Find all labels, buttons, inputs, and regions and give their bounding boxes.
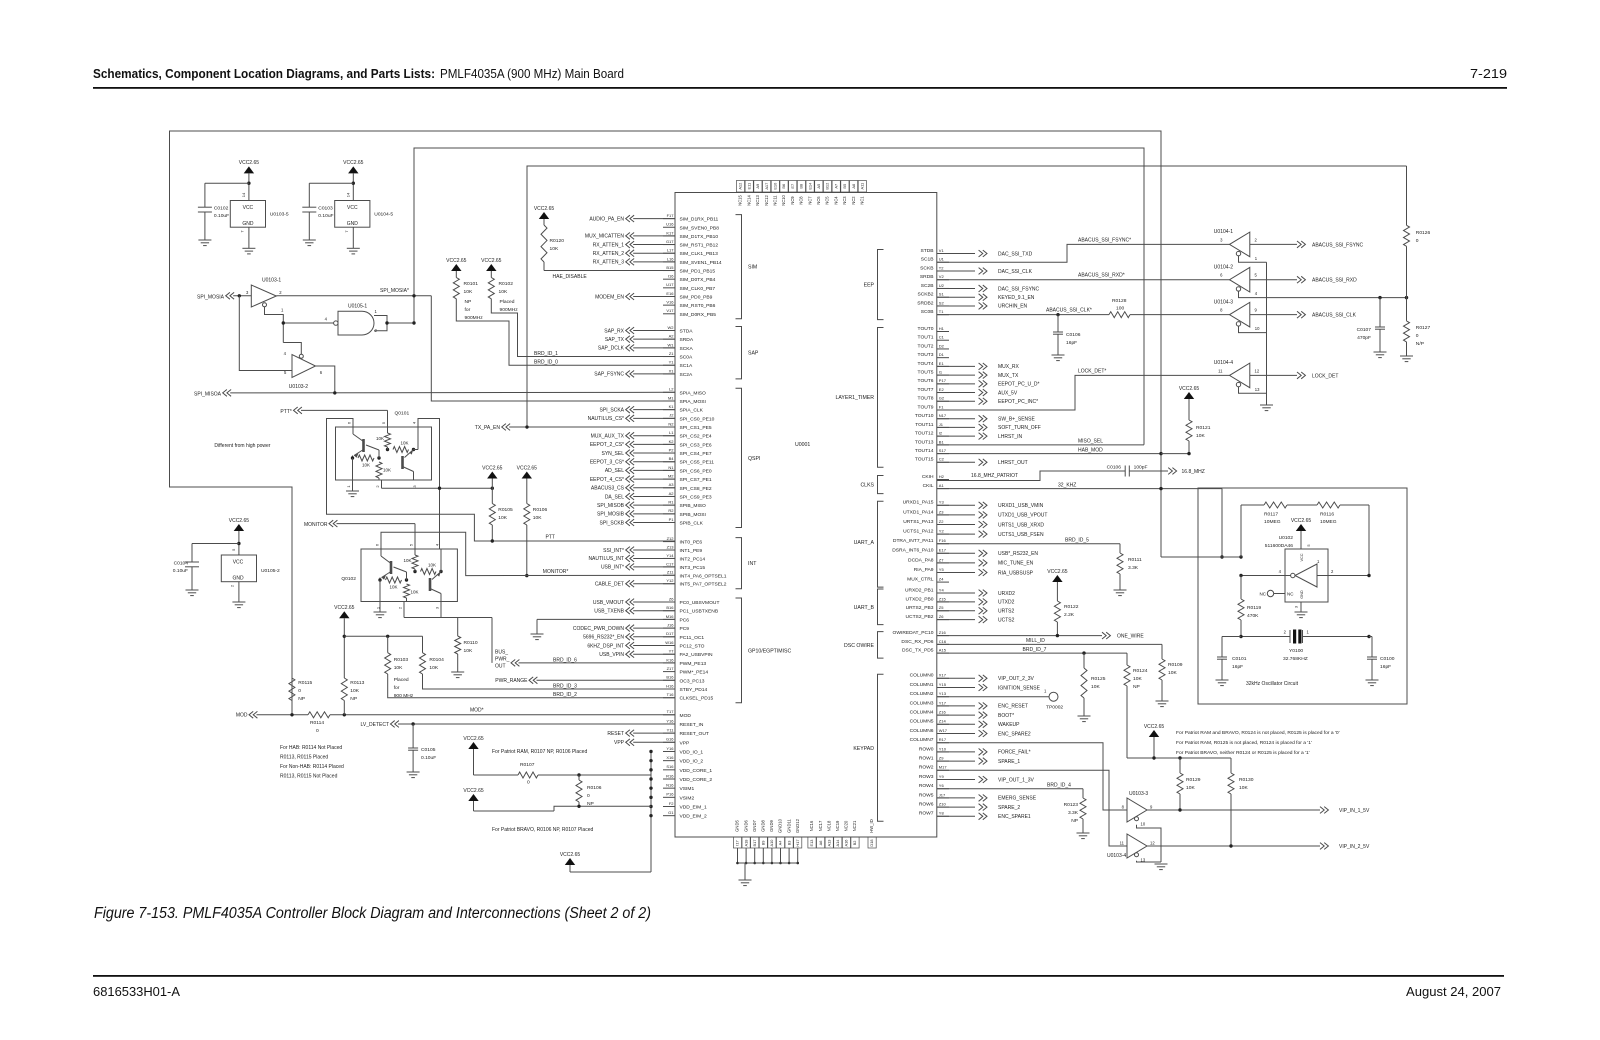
svg-text:R0110: R0110	[464, 640, 478, 646]
svg-text:10K: 10K	[533, 515, 542, 521]
svg-text:R0123: R0123	[1064, 802, 1079, 808]
svg-text:R0113: R0113	[350, 680, 364, 686]
capacitor C0100	[1369, 636, 1372, 638]
svg-text:U17: U17	[666, 282, 674, 287]
svg-text:STDB: STDB	[920, 248, 933, 254]
svg-text:DA_SEL: DA_SEL	[605, 494, 624, 500]
svg-text:Y16: Y16	[666, 718, 674, 723]
svg-text:COLUMN1: COLUMN1	[910, 682, 934, 688]
svg-text:16pF: 16pF	[1232, 664, 1243, 670]
ground at PC6	[531, 633, 544, 635]
svg-text:P16: P16	[666, 792, 674, 797]
capacitor C0107	[1379, 298, 1381, 327]
svg-text:VCC2.65: VCC2.65	[534, 206, 555, 212]
wire enable bus to C0107 R0127	[1267, 297, 1407, 299]
svg-text:10K: 10K	[362, 463, 370, 468]
svg-text:ROW3: ROW3	[919, 774, 934, 780]
svg-text:SAP_FSYNC: SAP_FSYNC	[594, 372, 624, 378]
resistor R0122	[1054, 601, 1060, 622]
svg-text:Z5: Z5	[939, 605, 944, 610]
svg-text:10K: 10K	[1196, 433, 1205, 439]
resistor R0125	[1083, 653, 1085, 668]
svg-text:SAP_RX: SAP_RX	[604, 328, 624, 334]
svg-text:SPI_SCKA: SPI_SCKA	[600, 407, 625, 413]
ground at U0103-4	[1155, 863, 1168, 865]
svg-text:N1: N1	[668, 465, 674, 470]
net SPI_MOSIA* wire	[276, 295, 431, 297]
resistor R0106 monitor	[524, 504, 530, 526]
wire MOD/HAB_MOD frame loop	[170, 131, 1162, 715]
svg-text:Y14: Y14	[666, 553, 674, 558]
svg-text:U0104-5: U0104-5	[374, 212, 393, 218]
svg-text:SC1B: SC1B	[921, 257, 934, 263]
svg-text:Z16: Z16	[939, 630, 947, 635]
svg-text:SC2B: SC2B	[921, 283, 934, 289]
svg-text:W1: W1	[668, 342, 675, 347]
svg-text:E2: E2	[939, 387, 945, 392]
svg-text:VIP_IN_1_5V: VIP_IN_1_5V	[1339, 808, 1370, 814]
svg-text:ROW2: ROW2	[919, 765, 934, 771]
svg-text:SIM_D1RX_PB11: SIM_D1RX_PB11	[680, 217, 719, 223]
resistor R0114	[308, 712, 330, 718]
svg-text:A7: A7	[833, 184, 838, 189]
svg-text:R0105: R0105	[498, 507, 513, 513]
ground at U0102	[1300, 602, 1302, 612]
svg-text:URTS2_PB3: URTS2_PB3	[906, 605, 934, 611]
svg-text:INT4_PA6_OPTSEL1: INT4_PA6_OPTSEL1	[680, 573, 727, 579]
svg-text:VCC: VCC	[233, 560, 244, 566]
svg-text:CODEC_PWR_DOWN: CODEC_PWR_DOWN	[573, 626, 625, 632]
svg-text:HW_ID: HW_ID	[869, 819, 874, 833]
svg-text:B9: B9	[761, 841, 766, 846]
svg-text:MUX_AUX_TX: MUX_AUX_TX	[591, 434, 625, 440]
svg-text:NC4: NC4	[833, 196, 838, 205]
net ABACUS_SSI_FSYNC output	[1250, 243, 1297, 245]
svg-text:D2: D2	[939, 343, 945, 348]
svg-text:For Patriot RAM and BRAVO, R01: For Patriot RAM and BRAVO, R0124 is not …	[1176, 730, 1340, 736]
svg-text:INT2_PC14: INT2_PC14	[680, 556, 706, 562]
svg-text:A12: A12	[738, 183, 743, 190]
svg-text:Z7: Z7	[939, 557, 944, 562]
svg-text:VCC2.65: VCC2.65	[463, 736, 484, 742]
svg-text:C0106: C0106	[1066, 332, 1081, 338]
svg-text:11: 11	[1218, 368, 1223, 373]
svg-text:C0100: C0100	[1380, 656, 1395, 662]
svg-text:GND: GND	[242, 221, 254, 227]
svg-text:NC8: NC8	[799, 196, 804, 205]
net ABACUS_SSI_RXD output	[1250, 279, 1297, 281]
net SW_B+_SENSE	[937, 418, 975, 420]
svg-text:MOD*: MOD*	[470, 708, 484, 714]
svg-text:LHRST_OUT: LHRST_OUT	[998, 460, 1028, 466]
svg-text:E17: E17	[939, 548, 947, 553]
svg-text:Z6: Z6	[669, 596, 674, 601]
svg-text:11: 11	[1120, 841, 1125, 846]
svg-text:B8: B8	[799, 184, 804, 189]
svg-text:D18: D18	[869, 839, 874, 846]
svg-text:ENC_RESET: ENC_RESET	[998, 704, 1028, 710]
svg-text:X17: X17	[939, 673, 947, 678]
capacitor C0101	[1222, 636, 1241, 638]
ground at C0100	[1366, 679, 1379, 681]
ground at C0101	[1216, 679, 1229, 681]
svg-text:UCTS1_PA12: UCTS1_PA12	[903, 529, 934, 535]
svg-text:NC19: NC19	[835, 820, 840, 831]
inverter U0103-3	[1127, 798, 1147, 822]
svg-text:0.10uF: 0.10uF	[421, 755, 436, 761]
U0001 pin group UART_A bracket	[878, 501, 884, 587]
ground at R0110	[451, 671, 464, 673]
svg-text:For Non-HAB: R0114 Placed: For Non-HAB: R0114 Placed	[280, 764, 344, 770]
resistor R0129	[1179, 758, 1181, 773]
svg-text:GND7: GND7	[752, 820, 757, 832]
svg-text:ENC_SPARE1: ENC_SPARE1	[998, 814, 1031, 820]
svg-text:M1: M1	[668, 395, 674, 400]
svg-text:ROW4: ROW4	[919, 783, 934, 789]
net ABACUS_SSI_FSYNC* wire	[937, 244, 1230, 262]
svg-text:R0111: R0111	[1128, 557, 1142, 563]
svg-text:A18: A18	[743, 840, 748, 847]
svg-text:Y0100: Y0100	[1289, 648, 1303, 654]
svg-text:RX_ATTEN_1: RX_ATTEN_1	[593, 242, 625, 248]
svg-text:Y3: Y3	[939, 500, 945, 505]
svg-text:A1: A1	[939, 483, 945, 488]
svg-text:0.10uF: 0.10uF	[214, 213, 229, 219]
svg-text:SAP: SAP	[748, 351, 759, 357]
svg-text:OUT: OUT	[495, 664, 506, 670]
junction MOD at frame	[290, 713, 293, 716]
svg-text:10K: 10K	[499, 289, 508, 295]
svg-text:DCDA_PA8: DCDA_PA8	[908, 557, 934, 563]
net URTS1_USB_XRXD	[937, 524, 975, 526]
svg-text:I17: I17	[735, 840, 740, 845]
svg-text:A6: A6	[818, 841, 823, 846]
svg-text:H16: H16	[666, 683, 674, 688]
svg-text:A10: A10	[769, 839, 774, 847]
svg-text:SW_B+_SENSE: SW_B+_SENSE	[998, 417, 1035, 423]
svg-text:NP: NP	[465, 299, 472, 305]
svg-text:BRD_ID_3: BRD_ID_3	[553, 684, 577, 690]
junction LV_DETECT at C0105	[411, 722, 414, 725]
svg-text:RESET_IN: RESET_IN	[680, 722, 704, 728]
svg-text:10K: 10K	[411, 590, 419, 595]
svg-text:VSIM2: VSIM2	[680, 795, 695, 801]
svg-text:NC17: NC17	[818, 820, 823, 831]
svg-text:U16: U16	[666, 222, 674, 227]
svg-text:T2: T2	[939, 265, 944, 270]
svg-text:3.3K: 3.3K	[1068, 810, 1079, 816]
svg-text:BRD_ID_6: BRD_ID_6	[553, 657, 577, 663]
ground at U0104 bus	[1260, 404, 1273, 406]
transistor pack Q0102	[341, 543, 457, 609]
inverter U0103-4	[1127, 834, 1147, 858]
svg-text:LAYER1_TIMER: LAYER1_TIMER	[835, 395, 874, 401]
svg-text:TOUT14: TOUT14	[915, 448, 934, 454]
svg-text:SIM_D1TX_PB10: SIM_D1TX_PB10	[680, 234, 719, 240]
svg-text:G2: G2	[939, 396, 945, 401]
inverter U0103-2	[292, 355, 316, 378]
wire PC6 to ground	[537, 618, 675, 620]
svg-text:August 24, 2007: August 24, 2007	[1406, 984, 1501, 999]
svg-text:INT1_PE9: INT1_PE9	[680, 548, 703, 554]
svg-text:A14: A14	[835, 839, 840, 847]
svg-text:R16: R16	[666, 773, 674, 778]
svg-text:10K: 10K	[350, 688, 359, 694]
svg-text:NC9: NC9	[790, 196, 795, 205]
svg-text:U2: U2	[939, 283, 945, 288]
svg-text:VDD_CORE_1: VDD_CORE_1	[680, 768, 713, 774]
svg-text:H1: H1	[939, 326, 945, 331]
svg-text:U0104-2: U0104-2	[1214, 264, 1233, 270]
svg-text:DAC_SSI_CLK: DAC_SSI_CLK	[998, 269, 1033, 275]
svg-text:SPI_CS3_PE6: SPI_CS3_PE6	[680, 442, 712, 448]
svg-text:10MEG: 10MEG	[1264, 519, 1281, 525]
svg-text:H2: H2	[939, 474, 945, 479]
svg-text:DSC_TX_PD5: DSC_TX_PD5	[902, 648, 934, 654]
svg-text:HAB_MOD: HAB_MOD	[1078, 447, 1103, 453]
U0001 pin group EEP bracket	[878, 250, 884, 320]
svg-text:ABACUS_SSI_CLK: ABACUS_SSI_CLK	[1312, 313, 1357, 319]
svg-text:VCC: VCC	[347, 205, 358, 211]
svg-text:SSI_INT*: SSI_INT*	[603, 548, 624, 554]
U0001 pin group GPIO/EGPTIMISC bracket	[736, 598, 742, 703]
svg-text:ABACUS_SSI_RXD*: ABACUS_SSI_RXD*	[1078, 273, 1125, 279]
svg-text:U0001: U0001	[795, 442, 810, 448]
svg-text:M16: M16	[666, 614, 675, 619]
svg-text:SIM_D0TX_PB4: SIM_D0TX_PB4	[680, 277, 716, 283]
svg-text:Y6: Y6	[939, 783, 945, 788]
svg-text:MISO_SEL: MISO_SEL	[1078, 439, 1103, 445]
svg-text:PWR_: PWR_	[495, 657, 510, 663]
svg-text:TOUT7: TOUT7	[918, 387, 934, 393]
svg-text:SPI_CS6_PE0: SPI_CS6_PE0	[680, 468, 712, 474]
net UCTS2	[937, 619, 975, 621]
svg-text:PC6: PC6	[680, 617, 690, 623]
svg-text:F17: F17	[667, 213, 675, 218]
svg-text:14: 14	[241, 192, 246, 197]
svg-text:Y16: Y16	[666, 746, 674, 751]
net HAE_DISABLE wire	[544, 270, 675, 272]
power VCC2.65 at R0122	[1052, 575, 1062, 582]
svg-text:SPARE_1: SPARE_1	[998, 759, 1020, 765]
net ENC_SPARE2	[937, 733, 975, 735]
svg-text:R0124: R0124	[1133, 668, 1148, 674]
svg-text:Y1: Y1	[669, 360, 675, 365]
junction C0106 tap	[1056, 313, 1059, 316]
U0001 pin group SIM bracket	[736, 215, 742, 319]
svg-text:ONE_WIRE: ONE_WIRE	[1117, 634, 1144, 640]
wire VCC2.65 to R0103 R0104	[344, 635, 422, 637]
net VIP_OUT_1_3V	[937, 779, 975, 781]
svg-text:GND8: GND8	[761, 820, 766, 832]
svg-text:32_KHZ: 32_KHZ	[1058, 482, 1076, 488]
svg-text:PC11_OC1: PC11_OC1	[680, 635, 705, 641]
svg-text:EEPOT_PC_U_D*: EEPOT_PC_U_D*	[998, 382, 1039, 388]
svg-text:X16: X16	[666, 755, 674, 760]
wire SPI_MOSIA to U0103-2 pin5	[239, 296, 292, 371]
wire U0103-1 pin1 to NAND	[265, 307, 284, 343]
svg-text:R0125: R0125	[1091, 676, 1106, 682]
svg-text:Schematics, Component Location: Schematics, Component Location Diagrams,…	[93, 66, 435, 81]
svg-text:C17: C17	[666, 561, 674, 566]
svg-text:16pF: 16pF	[1066, 340, 1077, 346]
svg-text:URCHIN_EN: URCHIN_EN	[998, 304, 1028, 310]
wire Q0102 pin2 bottom	[403, 602, 405, 618]
svg-text:VCC2.65: VCC2.65	[1291, 518, 1312, 524]
wire MISO_SEL frame loop	[414, 148, 1144, 445]
svg-text:S1: S1	[939, 292, 945, 297]
svg-text:V16: V16	[666, 300, 674, 305]
svg-text:10K: 10K	[383, 468, 391, 473]
svg-text:VIP_OUT_2_3V: VIP_OUT_2_3V	[998, 676, 1035, 682]
svg-text:10K: 10K	[1239, 785, 1248, 791]
svg-text:R0106: R0106	[533, 507, 548, 513]
svg-text:FORCE_FAIL*: FORCE_FAIL*	[998, 750, 1031, 756]
junction R0106 to MONITOR*	[525, 574, 528, 577]
svg-text:NC12: NC12	[764, 195, 769, 206]
svg-text:R0102: R0102	[499, 281, 514, 287]
svg-text:NP: NP	[350, 696, 357, 702]
svg-text:G1: G1	[668, 810, 674, 815]
svg-text:F16: F16	[939, 538, 947, 543]
resistor R0126	[1406, 166, 1408, 225]
svg-text:E7: E7	[790, 184, 795, 189]
svg-text:EEPOT_4_CS*: EEPOT_4_CS*	[590, 477, 624, 483]
net EMERG_SENSE	[937, 797, 975, 799]
svg-text:COLUMN2: COLUMN2	[910, 691, 934, 697]
svg-text:BRD_ID_0: BRD_ID_0	[534, 360, 558, 366]
wire Q0102 pin6 to MONITOR*	[381, 532, 675, 575]
svg-text:UCTS2_PB2: UCTS2_PB2	[906, 614, 934, 620]
svg-text:X1: X1	[669, 368, 675, 373]
svg-text:CKIL: CKIL	[923, 483, 934, 489]
svg-text:R0101: R0101	[464, 281, 479, 287]
wire U0102 output	[1317, 575, 1369, 577]
resistor R0124	[1126, 653, 1128, 665]
capacitor C0102 / IC U0103-5 power block	[244, 166, 254, 173]
svg-text:C0105: C0105	[421, 747, 436, 753]
U0001 pin group INT bracket	[736, 538, 742, 589]
svg-text:PC12_STO: PC12_STO	[680, 644, 705, 650]
net EEPOT_PC_INC*	[937, 400, 975, 402]
svg-text:E1: E1	[939, 361, 945, 366]
svg-text:A17: A17	[764, 183, 769, 190]
junction MOD at R0113	[343, 713, 346, 716]
capacitor C0106 patriot	[1124, 466, 1126, 477]
capacitor C0106	[1057, 315, 1059, 332]
ground at C0106	[1052, 354, 1065, 356]
svg-text:Y10: Y10	[939, 746, 947, 751]
svg-text:COLUMN7: COLUMN7	[910, 737, 934, 743]
svg-text:VCC: VCC	[1300, 553, 1304, 561]
svg-text:UTXD2_PB0: UTXD2_PB0	[906, 596, 934, 602]
svg-text:G16: G16	[666, 737, 674, 742]
svg-text:SIM_PD0_PB9: SIM_PD0_PB9	[680, 294, 713, 300]
svg-text:for: for	[465, 307, 471, 313]
svg-text:COLUMN6: COLUMN6	[910, 728, 934, 734]
svg-text:F1: F1	[939, 404, 944, 409]
junction SPI_MISOA	[333, 391, 336, 394]
svg-text:VCC2.65: VCC2.65	[343, 160, 364, 166]
svg-text:ABACUS_SSI_FSYNC: ABACUS_SSI_FSYNC	[1312, 242, 1364, 248]
svg-text:F2: F2	[669, 801, 674, 806]
svg-text:SIM: SIM	[748, 265, 757, 271]
svg-text:For HAB: R0114 Not Placed: For HAB: R0114 Not Placed	[280, 745, 342, 751]
svg-text:INT5_PA7_OPTSEL2: INT5_PA7_OPTSEL2	[680, 582, 727, 588]
net USB*_RS232_EN	[937, 552, 975, 554]
svg-text:UTXD2: UTXD2	[998, 600, 1015, 606]
svg-text:PWR_RANGE: PWR_RANGE	[495, 678, 528, 684]
svg-text:14: 14	[345, 192, 350, 197]
net ABACUS_SSI_RXD* wire	[937, 279, 1230, 281]
svg-text:PMLF4035A (900 MHz) Main Board: PMLF4035A (900 MHz) Main Board	[440, 66, 624, 81]
svg-text:BRD_ID_7: BRD_ID_7	[1023, 647, 1047, 653]
svg-text:VPP: VPP	[614, 740, 625, 746]
svg-text:NP: NP	[1071, 818, 1078, 824]
svg-text:K2: K2	[669, 439, 675, 444]
svg-text:10K: 10K	[1091, 684, 1100, 690]
net BRD_ID_0 wire	[456, 299, 675, 365]
net URCHIN_EN	[937, 305, 975, 307]
svg-text:VCC2.65: VCC2.65	[334, 605, 355, 611]
svg-text:N/P: N/P	[1416, 341, 1424, 347]
net HAB_MOD wire	[937, 453, 1161, 455]
svg-text:Z16: Z16	[939, 710, 947, 715]
IC U0001 body	[675, 193, 937, 838]
svg-text:W17: W17	[939, 728, 948, 733]
svg-text:NC6: NC6	[816, 196, 821, 205]
svg-text:U0103-4: U0103-4	[1107, 853, 1126, 859]
svg-text:R0127: R0127	[1416, 325, 1431, 331]
svg-text:B5: B5	[842, 184, 847, 189]
svg-text:NC11: NC11	[773, 195, 778, 206]
wire R0124 R0129 R0130 top rail	[1127, 757, 1231, 759]
svg-text:QSPI: QSPI	[748, 456, 760, 462]
svg-text:C0102: C0102	[214, 206, 229, 212]
svg-text:WAKEUP: WAKEUP	[998, 722, 1020, 728]
inverter U0104-1	[1230, 232, 1250, 257]
svg-text:Z17: Z17	[667, 666, 675, 671]
svg-text:SIM_PD1_PB15: SIM_PD1_PB15	[680, 269, 716, 275]
svg-text:100pF: 100pF	[1134, 465, 1148, 471]
svg-text:B16: B16	[666, 605, 674, 610]
svg-text:ROW6: ROW6	[919, 802, 934, 808]
net BRD_ID_1 wire	[491, 299, 675, 357]
svg-text:VIP_IN_2_5V: VIP_IN_2_5V	[1339, 844, 1370, 850]
svg-text:MODEM_EN: MODEM_EN	[595, 294, 624, 300]
svg-text:DSRA_INT6_PA10: DSRA_INT6_PA10	[892, 548, 934, 554]
svg-text:B1: B1	[939, 439, 945, 444]
svg-text:NC: NC	[1287, 592, 1294, 597]
svg-text:NP: NP	[1133, 684, 1140, 690]
svg-text:L17: L17	[667, 248, 674, 253]
svg-text:900 MHz: 900 MHz	[394, 693, 414, 699]
svg-text:V1: V1	[939, 248, 945, 253]
net MUX_TX	[937, 374, 975, 376]
svg-text:VDD_CORE_2: VDD_CORE_2	[680, 777, 713, 783]
svg-text:12: 12	[1255, 368, 1260, 373]
svg-text:S2: S2	[939, 300, 945, 305]
svg-text:URXD1_PA15: URXD1_PA15	[903, 500, 934, 506]
svg-text:NP: NP	[298, 696, 305, 702]
svg-text:VCC2.65: VCC2.65	[229, 518, 250, 524]
net EEPOT_PC_U_D*	[937, 383, 975, 385]
page footer	[93, 975, 1504, 977]
svg-text:10K: 10K	[498, 515, 507, 521]
svg-text:0: 0	[527, 780, 530, 786]
svg-text:S17: S17	[939, 448, 947, 453]
svg-text:EEPOT_PC_INC*: EEPOT_PC_INC*	[998, 399, 1038, 405]
